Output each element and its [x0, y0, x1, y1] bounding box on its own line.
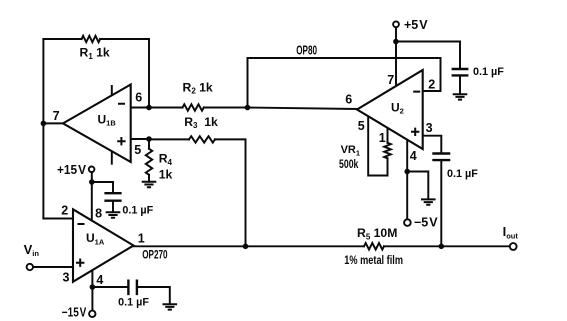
svg-text:0.1 µF: 0.1 µF — [118, 296, 149, 308]
svg-text:500k: 500k — [339, 159, 359, 171]
svg-text:R1 1k: R1 1k — [80, 46, 110, 61]
svg-text:OP270: OP270 — [142, 247, 167, 261]
svg-text:4: 4 — [96, 273, 103, 287]
svg-text:−5 V: −5 V — [414, 216, 438, 230]
svg-text:R5 10M: R5 10M — [357, 226, 397, 241]
svg-text:1k: 1k — [159, 167, 173, 181]
svg-text:1: 1 — [138, 232, 145, 246]
svg-text:5: 5 — [358, 119, 365, 133]
svg-text:−15 V: −15 V — [62, 306, 87, 320]
svg-text:R3 1k: R3 1k — [184, 115, 218, 130]
svg-text:0.1 µF: 0.1 µF — [122, 204, 153, 216]
svg-text:5: 5 — [134, 143, 141, 157]
svg-text:6: 6 — [135, 91, 142, 105]
svg-text:1% metal film: 1% metal film — [344, 253, 403, 267]
svg-text:6: 6 — [345, 93, 352, 107]
svg-text:1: 1 — [379, 131, 386, 145]
svg-text:0.1 µF: 0.1 µF — [473, 66, 504, 78]
svg-text:8: 8 — [95, 206, 102, 220]
svg-text:2: 2 — [61, 203, 68, 217]
svg-text:0.1 µF: 0.1 µF — [447, 168, 478, 180]
svg-text:+5 V: +5 V — [404, 18, 428, 32]
svg-text:R2 1k: R2 1k — [183, 80, 213, 95]
svg-text:+15 V: +15 V — [57, 163, 87, 177]
svg-text:7: 7 — [53, 109, 60, 123]
svg-text:7: 7 — [387, 73, 394, 87]
svg-text:OP80: OP80 — [296, 43, 317, 58]
svg-text:3: 3 — [426, 121, 433, 135]
svg-text:3: 3 — [63, 271, 70, 285]
svg-text:2: 2 — [428, 77, 435, 91]
svg-text:4: 4 — [410, 149, 417, 163]
